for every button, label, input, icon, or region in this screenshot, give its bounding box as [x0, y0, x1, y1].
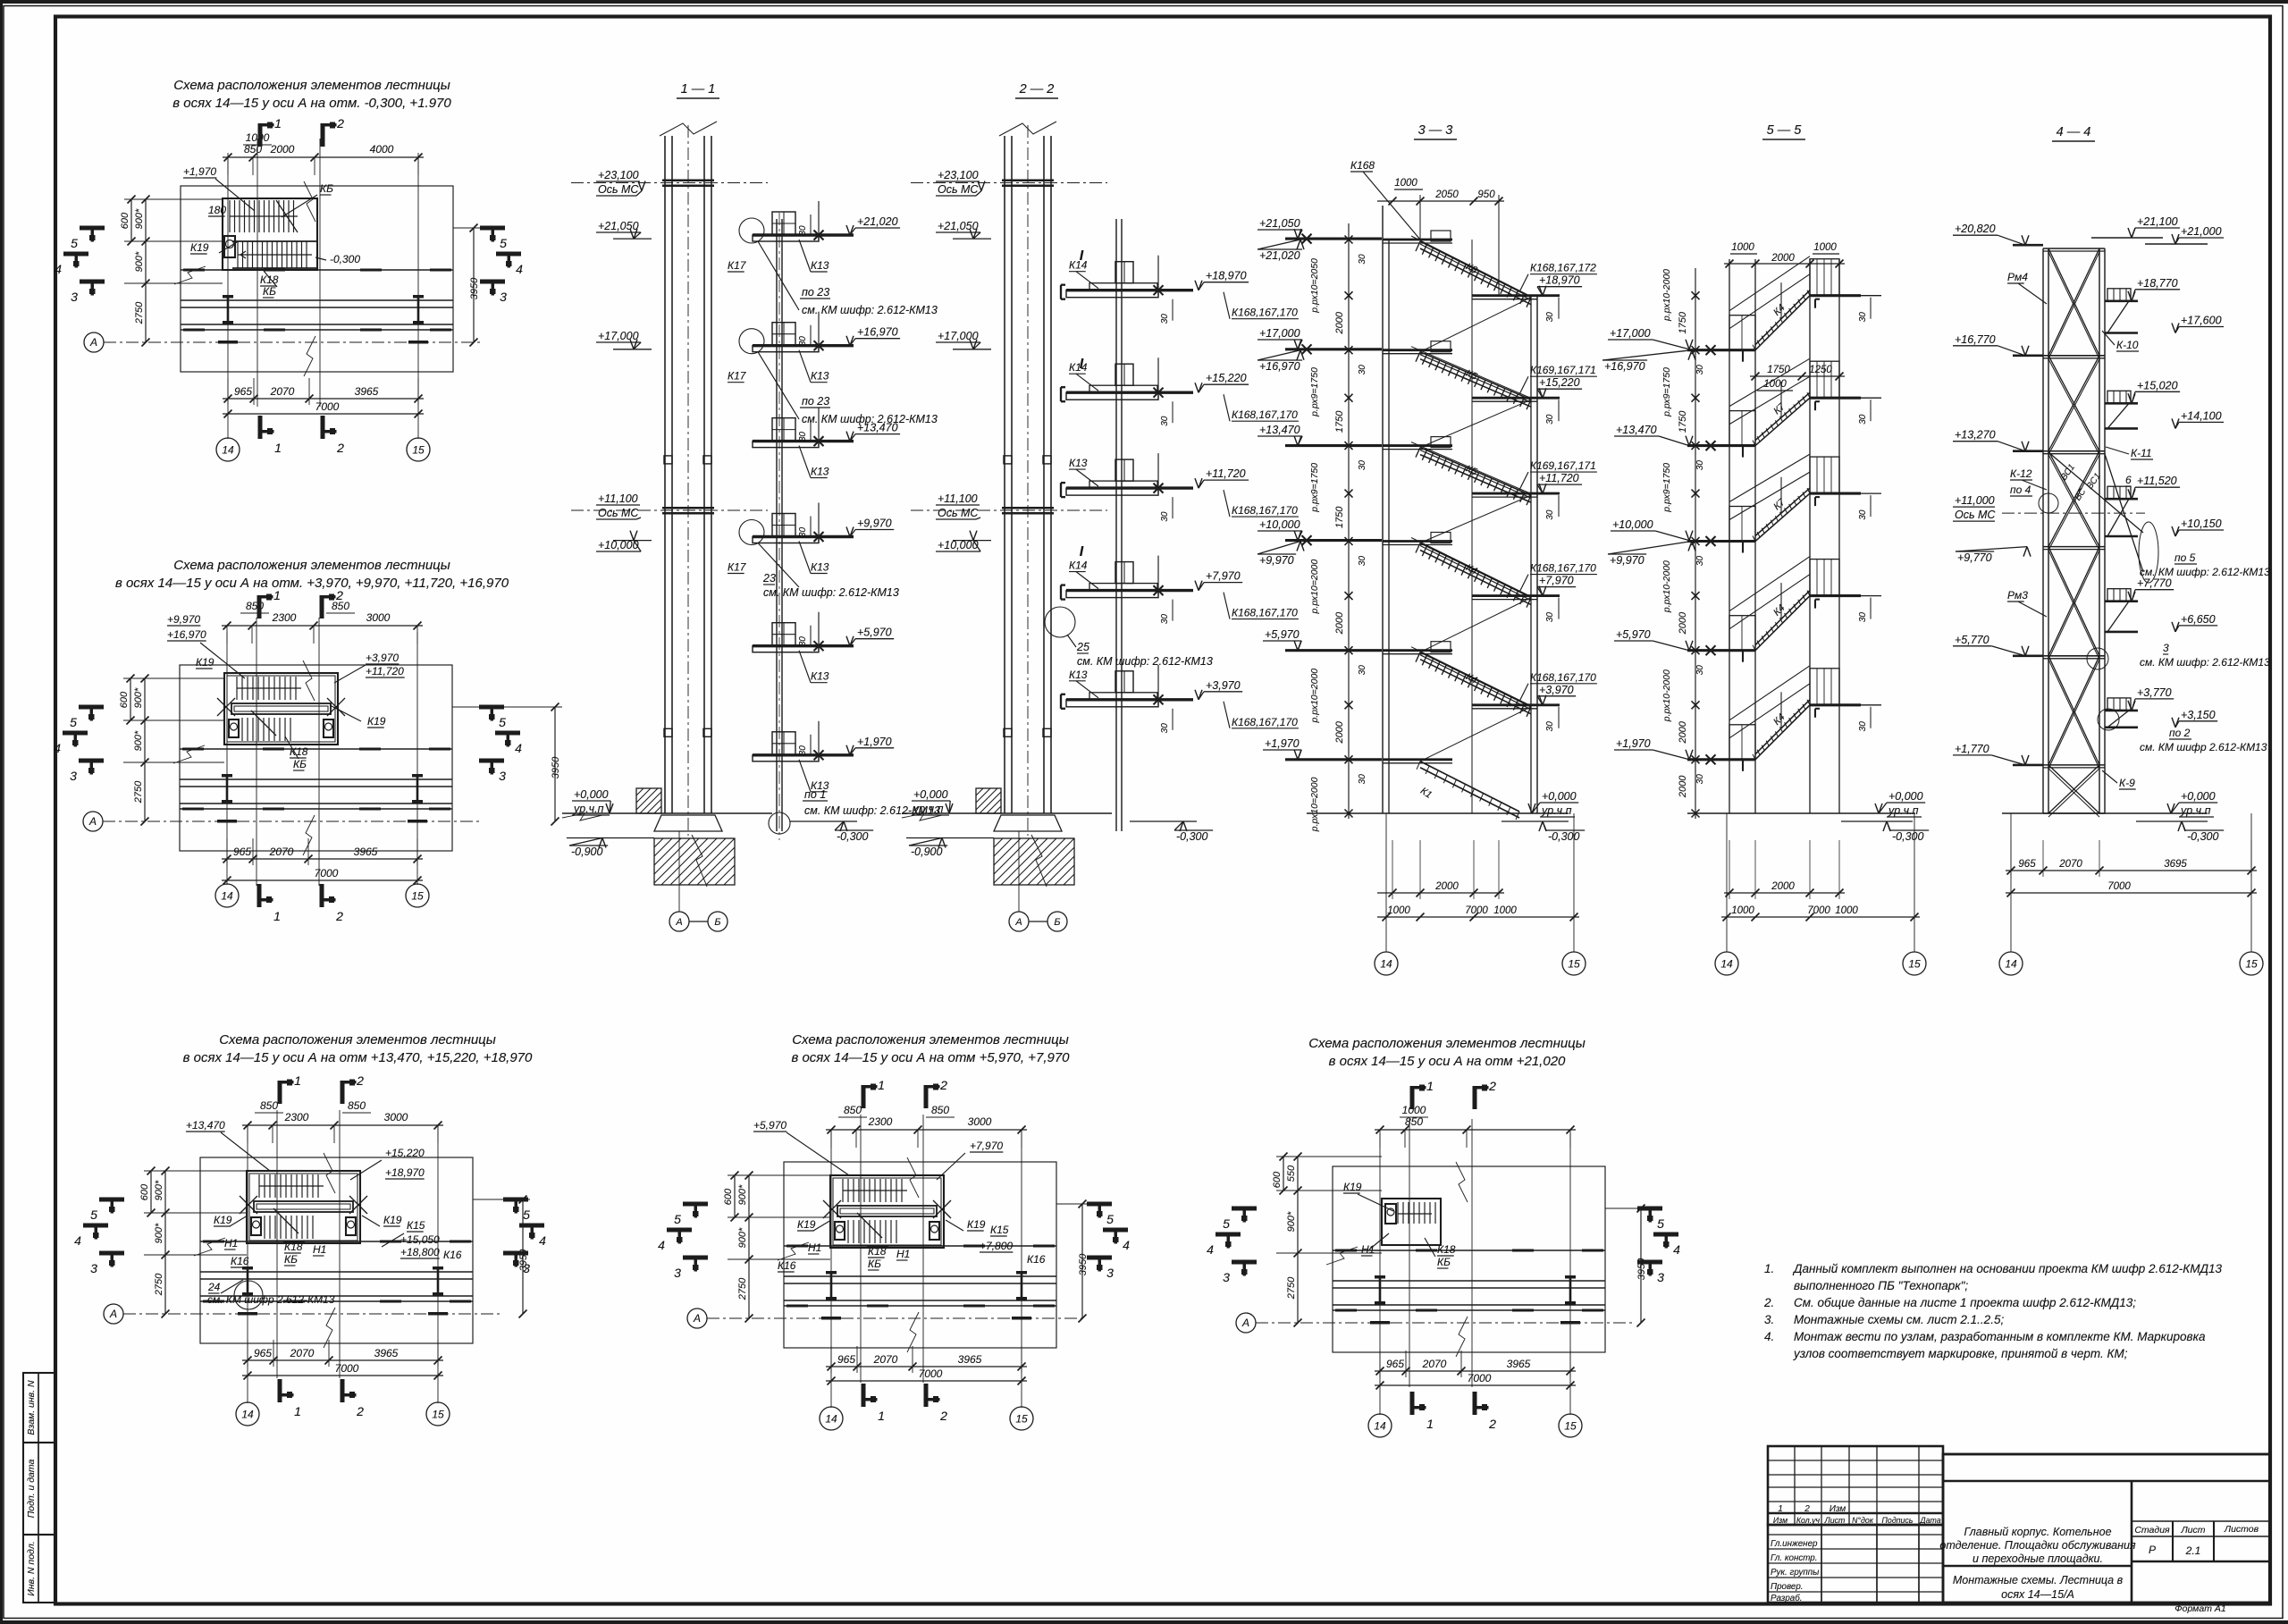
svg-text:+13,270: +13,270 — [1955, 429, 1996, 442]
svg-text:1750: 1750 — [1767, 365, 1790, 375]
svg-text:+7,970: +7,970 — [970, 1140, 1003, 1152]
svg-text:2000: 2000 — [1678, 775, 1688, 798]
svg-text:-0,300: -0,300 — [330, 253, 360, 265]
svg-text:+5,770: +5,770 — [1955, 634, 1989, 646]
svg-text:900*: 900* — [154, 1180, 164, 1200]
svg-text:30: 30 — [1545, 509, 1555, 520]
svg-text:30: 30 — [1695, 460, 1705, 471]
svg-text:5: 5 — [1106, 1212, 1114, 1226]
svg-text:30: 30 — [1695, 365, 1705, 375]
svg-text:+3,970: +3,970 — [1206, 679, 1241, 692]
svg-text:см. КМ шифр: 2.612-КМ13: см. КМ шифр: 2.612-КМ13 — [1077, 655, 1213, 668]
svg-text:+21,050: +21,050 — [598, 220, 639, 232]
svg-text:отделение. Площадки обслуживан: отделение. Площадки обслуживания — [1939, 1539, 2136, 1552]
svg-text:Монтажные схемы см. лист 2.1..: Монтажные схемы см. лист 2.1..2.5; — [1794, 1313, 2004, 1326]
svg-text:1250: 1250 — [1809, 365, 1832, 375]
svg-text:Кол.уч: Кол.уч — [1796, 1516, 1821, 1525]
svg-text:1000: 1000 — [1835, 905, 1858, 916]
svg-text:30: 30 — [798, 527, 808, 538]
svg-text:1: 1 — [1778, 1504, 1783, 1514]
svg-text:5: 5 — [523, 1207, 530, 1222]
svg-text:+21,020: +21,020 — [1259, 249, 1300, 262]
svg-text:Монтаж вести по узлам, разрабо: Монтаж вести по узлам, разработанным в к… — [1794, 1330, 2206, 1343]
svg-text:по 1: по 1 — [804, 788, 826, 801]
svg-text:2050: 2050 — [1434, 189, 1459, 200]
svg-text:15: 15 — [2245, 958, 2258, 971]
svg-text:КБ: КБ — [320, 182, 333, 195]
svg-text:3965: 3965 — [355, 385, 379, 398]
svg-text:+20,820: +20,820 — [1955, 223, 1996, 235]
svg-text:900*: 900* — [737, 1227, 748, 1248]
svg-text:30: 30 — [798, 225, 808, 236]
svg-text:3950: 3950 — [551, 756, 561, 778]
svg-text:Главный корпус. Котельное: Главный корпус. Котельное — [1964, 1526, 2111, 1538]
svg-text:+1,970: +1,970 — [1265, 737, 1300, 750]
svg-text:2 — 2: 2 — 2 — [1019, 82, 1055, 97]
svg-text:+9,970: +9,970 — [857, 517, 892, 530]
svg-text:+11,720: +11,720 — [366, 665, 404, 677]
svg-text:Н1: Н1 — [1361, 1243, 1375, 1256]
svg-text:1: 1 — [274, 116, 282, 130]
svg-text:К13: К13 — [811, 370, 829, 383]
svg-text:р.рх10=2000: р.рх10=2000 — [1309, 669, 1320, 724]
svg-text:2000: 2000 — [1334, 720, 1345, 744]
svg-text:+0,000: +0,000 — [1542, 790, 1577, 803]
svg-text:2000: 2000 — [1771, 253, 1795, 264]
svg-text:7000: 7000 — [1807, 905, 1830, 916]
svg-text:+15,220: +15,220 — [1206, 372, 1247, 384]
svg-text:3: 3 — [2163, 642, 2169, 654]
svg-text:1: 1 — [294, 1073, 301, 1088]
svg-text:6: 6 — [2125, 474, 2132, 486]
svg-text:2: 2 — [336, 116, 344, 130]
svg-text:Р: Р — [2149, 1544, 2156, 1556]
svg-text:3: 3 — [90, 1261, 97, 1275]
svg-text:Разраб.: Разраб. — [1771, 1594, 1802, 1603]
svg-text:Изм: Изм — [1830, 1504, 1846, 1514]
svg-text:30: 30 — [798, 336, 808, 347]
svg-text:2750: 2750 — [133, 780, 144, 804]
svg-text:в осях 14—15 у оси А на отм +1: в осях 14—15 у оси А на отм +13,470, +15… — [183, 1050, 533, 1065]
svg-text:1000: 1000 — [246, 131, 270, 144]
svg-text:+15,050: +15,050 — [400, 1233, 440, 1246]
svg-text:К19: К19 — [196, 656, 214, 669]
svg-text:Схема расположения элементов л: Схема расположения элементов лестницы — [1308, 1036, 1586, 1051]
svg-text:2.: 2. — [1763, 1296, 1774, 1309]
svg-text:2750: 2750 — [134, 301, 145, 324]
svg-text:Дата: Дата — [1919, 1516, 1940, 1525]
svg-text:Н1: Н1 — [896, 1248, 910, 1260]
svg-text:р.рх10=2000: р.рх10=2000 — [1309, 560, 1320, 615]
svg-text:К14: К14 — [1069, 259, 1088, 272]
svg-text:30: 30 — [1358, 254, 1367, 265]
svg-text:5: 5 — [1223, 1216, 1230, 1231]
svg-text:30: 30 — [1545, 721, 1555, 732]
svg-text:900*: 900* — [134, 251, 145, 272]
svg-text:2: 2 — [356, 1073, 364, 1088]
svg-text:2750: 2750 — [737, 1277, 748, 1300]
svg-text:Рм3: Рм3 — [2007, 589, 2028, 602]
svg-text:5: 5 — [71, 236, 78, 250]
svg-text:+13,470: +13,470 — [186, 1119, 225, 1132]
svg-text:30: 30 — [798, 636, 808, 647]
svg-text:7000: 7000 — [315, 867, 339, 879]
svg-text:+0,000: +0,000 — [2181, 790, 2216, 803]
svg-text:по 23: по 23 — [802, 286, 829, 299]
svg-text:900*: 900* — [154, 1223, 164, 1243]
svg-text:Н1: Н1 — [808, 1241, 821, 1254]
svg-text:965: 965 — [2018, 859, 2036, 870]
svg-text:+5,970: +5,970 — [753, 1119, 786, 1132]
svg-text:К13: К13 — [811, 466, 829, 478]
svg-text:30: 30 — [1545, 612, 1555, 623]
svg-text:3: 3 — [523, 1261, 530, 1275]
svg-text:850: 850 — [931, 1104, 949, 1116]
svg-text:15: 15 — [412, 444, 425, 457]
svg-text:+1,970: +1,970 — [183, 165, 216, 178]
svg-text:р.рх9=1750: р.рх9=1750 — [1309, 463, 1320, 513]
svg-text:850: 850 — [348, 1099, 366, 1112]
svg-text:см. КМ шифр: 2.612-КМ13: см. КМ шифр: 2.612-КМ13 — [802, 413, 938, 425]
svg-text:Подпись: Подпись — [1882, 1516, 1914, 1525]
svg-text:К16: К16 — [1027, 1253, 1046, 1266]
svg-text:+17,000: +17,000 — [1610, 327, 1651, 340]
svg-text:К18: К18 — [284, 1241, 303, 1253]
svg-text:К18: К18 — [260, 273, 279, 286]
svg-text:+3,770: +3,770 — [2137, 686, 2172, 699]
svg-text:2300: 2300 — [868, 1115, 893, 1128]
svg-text:900*: 900* — [737, 1184, 748, 1205]
svg-text:К13: К13 — [811, 259, 829, 272]
svg-text:5 — 5: 5 — 5 — [1767, 123, 1803, 138]
svg-text:30: 30 — [798, 432, 808, 442]
svg-text:+11,520: +11,520 — [2137, 475, 2177, 487]
svg-text:А: А — [693, 1312, 701, 1325]
svg-text:30: 30 — [1858, 509, 1868, 520]
svg-text:КБ: КБ — [868, 1258, 881, 1270]
svg-text:К169,167,171: К169,167,171 — [1530, 364, 1596, 376]
svg-text:550: 550 — [1286, 1165, 1297, 1182]
svg-text:2: 2 — [939, 1078, 947, 1092]
svg-text:К168,167,170: К168,167,170 — [1530, 562, 1596, 575]
svg-text:+5,970: +5,970 — [1265, 628, 1300, 641]
svg-text:+23,100: +23,100 — [598, 169, 639, 181]
svg-text:2000: 2000 — [1678, 720, 1688, 744]
svg-text:965: 965 — [1386, 1358, 1404, 1370]
svg-text:в осях 14—15 у оси А на отм +2: в осях 14—15 у оси А на отм +21,020 — [1329, 1054, 1566, 1069]
svg-text:Ось МС: Ось МС — [598, 507, 639, 519]
svg-text:в осях 14—15 у оси А на отм. +: в осях 14—15 у оси А на отм. +3,970, +9,… — [115, 576, 509, 591]
svg-text:и переходные площадки.: и переходные площадки. — [1973, 1552, 2103, 1565]
svg-text:3 — 3: 3 — 3 — [1418, 123, 1453, 138]
svg-text:5: 5 — [499, 715, 506, 729]
svg-text:выполненного ПБ "Технопарк";: выполненного ПБ "Технопарк"; — [1794, 1279, 1968, 1292]
svg-text:3000: 3000 — [366, 611, 391, 624]
svg-text:15: 15 — [1564, 1420, 1577, 1433]
svg-text:К168,167,170: К168,167,170 — [1232, 504, 1298, 517]
svg-text:Ось МС: Ось МС — [598, 183, 639, 196]
svg-text:7000: 7000 — [2107, 881, 2131, 892]
svg-text:р.рх9=1750: р.рх9=1750 — [1309, 367, 1320, 417]
svg-text:-0,300: -0,300 — [2187, 830, 2218, 843]
svg-text:Схема расположения элементов л: Схема расположения элементов лестницы — [173, 558, 450, 573]
svg-text:К17: К17 — [728, 259, 747, 272]
svg-text:4: 4 — [1207, 1242, 1214, 1257]
svg-text:3695: 3695 — [2164, 859, 2187, 870]
svg-text:30: 30 — [1695, 556, 1705, 567]
svg-text:р.рх10-2000: р.рх10-2000 — [1661, 669, 1672, 722]
svg-text:4 — 4: 4 — 4 — [2057, 125, 2091, 139]
svg-text:+11,720: +11,720 — [1539, 472, 1579, 484]
svg-text:+17,000: +17,000 — [938, 330, 979, 342]
svg-text:Н1: Н1 — [224, 1237, 238, 1250]
svg-text:4: 4 — [1673, 1242, 1680, 1257]
svg-text:К168,167,172: К168,167,172 — [1530, 262, 1596, 274]
svg-text:+1,970: +1,970 — [857, 736, 892, 748]
svg-text:30: 30 — [1858, 312, 1868, 323]
svg-text:Гл. констр.: Гл. констр. — [1771, 1553, 1817, 1563]
svg-text:+11,100: +11,100 — [598, 492, 638, 505]
svg-text:+3,970: +3,970 — [1539, 684, 1574, 696]
svg-text:Гл.инженер: Гл.инженер — [1771, 1539, 1818, 1549]
svg-text:14: 14 — [221, 890, 233, 903]
svg-text:К168: К168 — [1350, 159, 1375, 172]
svg-text:Подп. и дата: Подп. и дата — [26, 1459, 37, 1518]
svg-text:Провер.: Провер. — [1771, 1582, 1804, 1592]
svg-text:см. КМ шифр: 2.612-КМ13: см. КМ шифр: 2.612-КМ13 — [763, 586, 899, 599]
svg-text:К-11: К-11 — [2131, 447, 2152, 459]
svg-text:Рук. группы: Рук. группы — [1771, 1568, 1820, 1578]
svg-text:30: 30 — [1545, 414, 1555, 425]
svg-text:+16,970: +16,970 — [1604, 360, 1645, 373]
svg-text:+13,470: +13,470 — [1259, 424, 1300, 436]
svg-text:4: 4 — [658, 1238, 665, 1252]
svg-text:15: 15 — [432, 1409, 444, 1421]
svg-text:КБ: КБ — [1437, 1256, 1451, 1268]
svg-text:р.рх9=1750: р.рх9=1750 — [1661, 367, 1672, 417]
svg-text:К17: К17 — [728, 370, 747, 383]
svg-text:+7,970: +7,970 — [1539, 575, 1574, 587]
svg-text:+10,000: +10,000 — [1259, 518, 1300, 531]
svg-text:см. КМ шифр: 2.612-КМ13: см. КМ шифр: 2.612-КМ13 — [2140, 566, 2270, 578]
svg-text:2070: 2070 — [2058, 859, 2082, 870]
svg-text:30: 30 — [1160, 416, 1170, 426]
svg-text:А: А — [89, 336, 97, 349]
svg-text:р.рх10-2000: р.рх10-2000 — [1661, 560, 1672, 613]
svg-text:3: 3 — [70, 769, 77, 783]
svg-text:К168,167,170: К168,167,170 — [1232, 408, 1298, 421]
svg-text:К18: К18 — [868, 1245, 887, 1258]
svg-text:2070: 2070 — [270, 385, 295, 398]
svg-text:+21,020: +21,020 — [857, 215, 898, 228]
svg-text:2: 2 — [1488, 1417, 1496, 1431]
svg-text:1: 1 — [1426, 1417, 1434, 1431]
svg-text:I: I — [1080, 544, 1084, 560]
svg-text:I: I — [1080, 357, 1084, 372]
svg-text:24: 24 — [207, 1281, 221, 1293]
svg-text:К-10: К-10 — [2116, 339, 2139, 351]
svg-text:р.рх9=1750: р.рх9=1750 — [1661, 463, 1672, 513]
svg-text:+15,220: +15,220 — [1539, 376, 1580, 389]
svg-text:14: 14 — [825, 1413, 837, 1426]
svg-text:30: 30 — [1695, 665, 1705, 676]
svg-text:2300: 2300 — [284, 1111, 309, 1123]
svg-text:1: 1 — [1426, 1079, 1434, 1093]
svg-text:Инв. N подл.: Инв. N подл. — [26, 1541, 37, 1595]
svg-text:+21,050: +21,050 — [938, 220, 979, 232]
svg-text:р.рх10=2050: р.рх10=2050 — [1309, 258, 1320, 314]
svg-text:А: А — [109, 1308, 117, 1320]
svg-text:Изм: Изм — [1773, 1516, 1787, 1525]
svg-text:30: 30 — [1695, 774, 1705, 785]
svg-text:4.: 4. — [1764, 1330, 1774, 1343]
svg-text:2000: 2000 — [1678, 611, 1688, 635]
svg-text:7000: 7000 — [335, 1362, 359, 1375]
svg-text:+9,970: +9,970 — [1610, 554, 1644, 567]
svg-text:К-9: К-9 — [2119, 777, 2135, 789]
svg-text:см. КМ шифр 2.612-КМ13: см. КМ шифр 2.612-КМ13 — [2140, 741, 2267, 753]
svg-text:+15,220: +15,220 — [385, 1147, 425, 1159]
svg-text:7000: 7000 — [315, 400, 340, 413]
svg-text:+17,600: +17,600 — [2181, 315, 2222, 327]
svg-text:1750: 1750 — [1334, 506, 1345, 528]
svg-text:по 23: по 23 — [802, 395, 829, 408]
svg-text:Ось МС: Ось МС — [1955, 509, 1996, 521]
svg-text:2000: 2000 — [1771, 881, 1795, 892]
svg-text:600: 600 — [119, 691, 130, 708]
svg-text:+3,150: +3,150 — [2181, 709, 2216, 721]
svg-text:15: 15 — [1908, 958, 1921, 971]
svg-text:1000: 1000 — [1387, 905, 1410, 916]
svg-text:30: 30 — [1545, 312, 1555, 323]
svg-text:К169,167,171: К169,167,171 — [1530, 459, 1596, 472]
svg-text:+0,000: +0,000 — [1888, 790, 1923, 803]
svg-text:3000: 3000 — [968, 1115, 992, 1128]
svg-text:4: 4 — [539, 1233, 546, 1248]
svg-text:См. общие данные на листе 1 пр: См. общие данные на листе 1 проекта шифр… — [1794, 1296, 2136, 1309]
svg-text:+17,000: +17,000 — [598, 330, 639, 342]
svg-text:+23,100: +23,100 — [938, 169, 979, 181]
svg-text:+1,770: +1,770 — [1955, 743, 1989, 755]
svg-text:30: 30 — [1858, 612, 1868, 623]
svg-text:1000: 1000 — [1731, 242, 1754, 253]
svg-text:3000: 3000 — [384, 1111, 408, 1123]
svg-text:14: 14 — [222, 444, 234, 457]
svg-text:30: 30 — [798, 745, 808, 756]
svg-text:Схема расположения элементов л: Схема расположения элементов лестницы — [219, 1032, 496, 1048]
svg-text:1 — 1: 1 — 1 — [681, 82, 716, 97]
svg-text:+18,970: +18,970 — [1539, 274, 1580, 287]
svg-text:+21,100: +21,100 — [2137, 215, 2178, 228]
svg-text:Ось МС: Ось МС — [938, 183, 979, 196]
svg-text:+21,000: +21,000 — [2181, 225, 2222, 238]
svg-text:2300: 2300 — [272, 611, 297, 624]
svg-text:Ось МС: Ось МС — [938, 507, 979, 519]
svg-text:15: 15 — [411, 890, 424, 903]
svg-text:Рм4: Рм4 — [2007, 271, 2028, 283]
svg-text:КБ: КБ — [263, 285, 276, 298]
svg-text:3: 3 — [1106, 1266, 1114, 1280]
svg-text:2000: 2000 — [1334, 311, 1345, 334]
svg-text:1: 1 — [294, 1404, 301, 1418]
svg-text:1750: 1750 — [1334, 410, 1345, 433]
svg-text:А: А — [1014, 917, 1022, 928]
svg-text:Схема расположения элементов л: Схема расположения элементов лестницы — [173, 78, 450, 93]
svg-text:К19: К19 — [383, 1214, 402, 1226]
svg-text:30: 30 — [1858, 414, 1868, 425]
svg-text:1000: 1000 — [1493, 905, 1517, 916]
svg-text:+10,150: +10,150 — [2181, 517, 2222, 530]
svg-text:30: 30 — [1358, 665, 1367, 676]
svg-text:-0,300: -0,300 — [1892, 830, 1923, 843]
svg-text:2750: 2750 — [1286, 1276, 1297, 1300]
svg-text:4: 4 — [55, 262, 62, 276]
svg-text:К13: К13 — [811, 670, 829, 683]
svg-text:14: 14 — [1720, 958, 1733, 971]
svg-text:К19: К19 — [797, 1218, 816, 1231]
svg-text:14: 14 — [241, 1409, 254, 1421]
svg-text:К18: К18 — [1437, 1243, 1456, 1256]
svg-text:К168,167,170: К168,167,170 — [1232, 716, 1298, 728]
svg-text:I: I — [1080, 248, 1084, 264]
svg-text:+18,970: +18,970 — [385, 1166, 425, 1179]
svg-text:2070: 2070 — [269, 846, 294, 858]
svg-text:N°док: N°док — [1852, 1516, 1874, 1525]
svg-text:1: 1 — [878, 1409, 885, 1423]
svg-text:+5,970: +5,970 — [857, 627, 892, 639]
svg-text:+9,970: +9,970 — [167, 613, 200, 626]
svg-text:+16,970: +16,970 — [167, 628, 206, 641]
svg-text:1.: 1. — [1764, 1262, 1774, 1275]
svg-text:+16,970: +16,970 — [1259, 360, 1300, 373]
svg-text:+10,000: +10,000 — [1612, 518, 1653, 531]
svg-text:950: 950 — [1477, 189, 1495, 200]
svg-text:900*: 900* — [134, 208, 145, 229]
svg-text:965: 965 — [254, 1347, 272, 1359]
svg-text:30: 30 — [1858, 721, 1868, 732]
svg-text:К15: К15 — [407, 1219, 425, 1232]
svg-text:Б: Б — [714, 917, 720, 928]
svg-text:4: 4 — [1123, 1238, 1130, 1252]
svg-text:+16,770: +16,770 — [1955, 333, 1996, 346]
svg-text:Листов: Листов — [2224, 1524, 2259, 1535]
svg-text:2000: 2000 — [1334, 611, 1345, 635]
svg-text:+16,970: +16,970 — [857, 326, 898, 339]
svg-text:5: 5 — [70, 715, 77, 729]
svg-text:по 5: по 5 — [2174, 551, 2196, 564]
svg-text:1750: 1750 — [1678, 410, 1688, 433]
svg-text:14: 14 — [1374, 1420, 1386, 1433]
svg-text:осях 14—15/А: осях 14—15/А — [2001, 1588, 2074, 1601]
svg-text:К13: К13 — [811, 561, 829, 574]
svg-text:А: А — [1241, 1317, 1249, 1329]
svg-text:Формат А1: Формат А1 — [2174, 1603, 2225, 1614]
svg-text:+9,970: +9,970 — [1259, 554, 1294, 567]
svg-text:Н1: Н1 — [313, 1243, 326, 1256]
svg-text:900*: 900* — [133, 687, 144, 708]
svg-text:КБ: КБ — [293, 758, 307, 770]
svg-text:К19: К19 — [967, 1218, 986, 1231]
svg-text:30: 30 — [1160, 511, 1170, 522]
svg-text:2070: 2070 — [1422, 1358, 1447, 1370]
svg-text:3965: 3965 — [354, 846, 378, 858]
svg-text:30: 30 — [1358, 365, 1367, 375]
svg-text:К13: К13 — [1069, 457, 1088, 469]
svg-text:2: 2 — [336, 441, 344, 455]
svg-text:900*: 900* — [1286, 1211, 1297, 1232]
svg-text:2: 2 — [356, 1404, 364, 1418]
svg-text:+1,970: +1,970 — [1616, 737, 1651, 750]
